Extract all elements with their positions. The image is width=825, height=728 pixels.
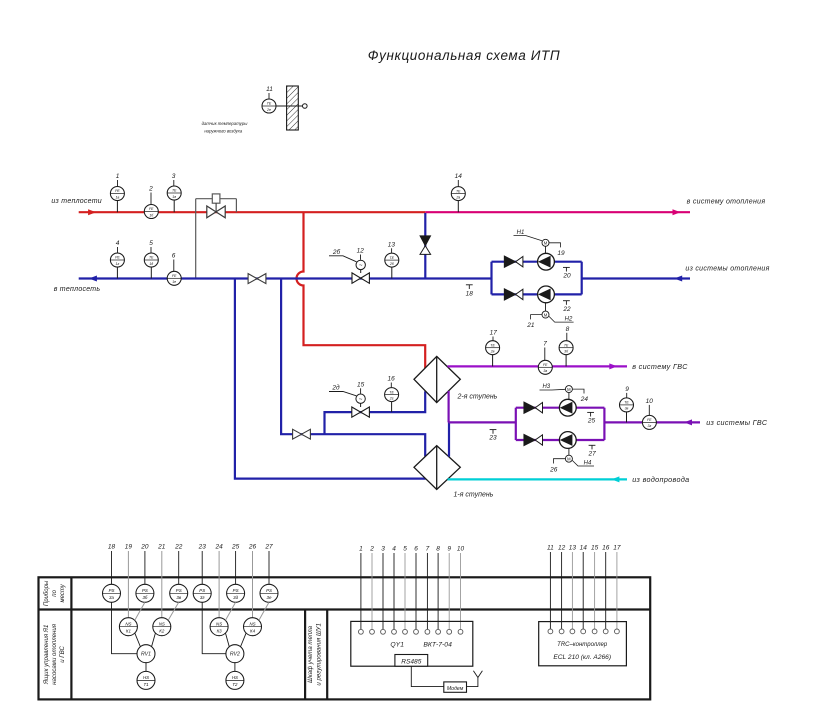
svg-text:К3: К3 [217,628,223,633]
svg-text:9: 9 [447,546,451,553]
instrument 4 label [116,240,120,253]
svg-text:К2: К2 [159,628,165,633]
wire RV1 to HS [145,663,147,672]
valve actuator box [212,194,220,203]
svg-text:10: 10 [457,546,465,553]
flow arrow left GVS [684,419,692,425]
svg-text:11: 11 [266,86,273,93]
svg-text:NS: NS [125,621,131,626]
text из теплосети [51,198,102,205]
svg-text:Н4: Н4 [584,461,592,467]
terminal number 9 [447,546,451,553]
pipe: return to heat network (blue) [79,277,492,279]
GVS pump left riser [515,408,517,440]
terminal number 25 [231,544,240,551]
header Ящик управления [43,623,66,685]
pump branch bottom [492,293,582,295]
svg-text:в систему отопления: в систему отопления [687,198,766,205]
wire 26 to NS [252,551,254,618]
wire 14 [582,552,584,629]
wire 13 [571,552,573,629]
wire 12 [561,552,563,629]
svg-text:17: 17 [613,545,621,552]
svg-text:ТЕ: ТЕ [490,343,495,347]
svg-text:HS: HS [143,675,149,680]
check valve GVS bottom [524,434,543,445]
text из водопровода [632,475,689,484]
label Н2 [549,316,574,322]
valve 15 [352,407,370,417]
table row divider [39,608,651,610]
svg-text:6: 6 [414,546,418,553]
instrument 14 stem [457,201,459,213]
circle HS T2 [226,671,244,689]
wire K1 to RV1 [135,633,141,646]
svg-text:2в: 2в [490,350,495,354]
svg-text:12: 12 [357,248,365,255]
svg-text:FE: FE [172,274,177,278]
motor H3 [565,386,572,393]
svg-text:из системы ГВС: из системы ГВС [706,418,768,427]
label 2б leader [329,248,357,262]
svg-text:1д: 1д [149,262,153,266]
tick 18 [466,285,474,298]
svg-text:7: 7 [426,546,430,553]
instrument 16 label [387,376,395,388]
svg-text:23: 23 [198,544,207,551]
instrument 9 label [625,386,629,398]
svg-text:3д: 3д [233,595,238,600]
shutoff valve GVS [293,429,311,439]
svg-text:23: 23 [488,435,497,442]
svg-text:Функциональная схема ИТП: Функциональная схема ИТП [368,48,560,63]
wire 2 [371,553,373,630]
wire 18 to RV1 [112,602,138,653]
svg-text:5: 5 [403,546,407,553]
svg-text:FE: FE [149,207,154,211]
svg-text:7: 7 [543,341,547,348]
svg-text:5: 5 [149,240,153,247]
wire 25 to PS [235,551,237,584]
GVS pump branch top [516,407,605,409]
blue riser 2 [281,280,425,457]
instrument 4 stem [116,267,118,279]
terminal 3 [381,629,386,634]
wire 27 to PS [268,551,270,584]
pump circuit right riser [581,262,583,295]
pipe: supply from heat network (red) [79,211,426,213]
tick 25 [587,412,596,424]
pipe: to heating system (magenta) [425,211,690,213]
svg-text:3: 3 [381,546,385,553]
text из системы ГВС [706,418,768,427]
svg-text:в систему ГВС: в систему ГВС [632,362,688,371]
svg-text:ТЕ: ТЕ [389,390,394,394]
terminal number 20 [140,544,149,551]
instrument 13 label [388,241,396,253]
check valve bottom [504,289,523,300]
instrument 13 stem [391,267,393,278]
wire to 24 [572,389,588,403]
svg-text:M: M [544,241,548,246]
svg-text:21: 21 [526,322,535,329]
svg-text:ТЕ: ТЕ [267,102,272,106]
svg-text:27: 27 [264,544,273,551]
blue riser 1 (cold water down) [235,280,426,479]
svg-text:FE: FE [647,418,652,422]
svg-text:NS: NS [249,621,255,626]
svg-text:Н2: Н2 [565,317,573,323]
circle NS К3 [210,618,228,636]
svg-text:20: 20 [562,273,571,280]
instrument 1 stem [116,201,118,213]
instrument 3 stem [173,200,175,212]
svg-text:2д: 2д [331,384,340,392]
svg-text:3: 3 [172,173,176,180]
instrument 13 [385,253,399,267]
svg-text:10: 10 [646,398,654,405]
svg-text:Приборы: Приборы [44,580,50,606]
pipe: to GVS system [448,365,628,367]
svg-text:4: 4 [116,240,120,247]
svg-text:2б: 2б [332,248,341,256]
svg-text:25: 25 [587,418,596,425]
sensor line [276,105,303,107]
circle PS 3в [170,584,188,602]
svg-text:24: 24 [214,544,223,551]
svg-text:3в: 3в [625,407,629,411]
svg-text:1: 1 [359,546,363,553]
circle RV1 [137,645,155,663]
terminal number 15 [591,545,599,552]
wire 20 to PS [144,551,146,584]
svg-text:RV1: RV1 [141,652,151,658]
svg-text:3г: 3г [648,424,652,428]
impulse line left [195,199,197,279]
shutoff valve on return [248,274,266,284]
svg-text:Шкаф учета тепла: Шкаф учета тепла [307,625,314,683]
motor H4 [565,455,572,462]
check valve top [504,256,523,267]
valve actuator stem [215,203,217,212]
wire 5 [404,553,406,630]
svg-text:насосами отопления: насосами отопления [51,623,58,685]
pipe: from GVS system [604,421,700,423]
circle PS 3а [103,584,121,602]
svg-text:19: 19 [125,544,133,551]
flow arrow right magenta [673,209,681,215]
svg-text:ТЕ: ТЕ [149,256,154,260]
wire K2 to RV1 [152,633,156,646]
svg-text:22: 22 [562,306,571,313]
svg-text:8: 8 [436,546,440,553]
instrument 9 [620,398,634,412]
instrument 8 label [566,326,570,341]
svg-text:TRC–контроллер: TRC–контроллер [557,642,608,648]
instrument 6 [167,271,181,285]
wire 16 [605,552,607,629]
pump branch top [492,261,582,263]
valve 12 label [357,248,365,260]
flow arrow left blue [89,276,97,282]
label Н4 [572,461,594,467]
svg-text:Т1: Т1 [143,682,149,687]
terminal 16 [603,629,608,634]
svg-text:ECL 210 (кл. А266): ECL 210 (кл. А266) [553,654,611,661]
circle NS К2 [153,618,171,636]
circle PS 3е [260,584,278,602]
svg-text:1е: 1е [172,280,176,284]
svg-text:К1: К1 [126,628,132,633]
svg-text:РЕ: РЕ [115,189,120,193]
svg-text:Н1: Н1 [517,230,525,236]
check valve GVS top [524,402,543,413]
wire 3 [382,553,384,630]
svg-text:18: 18 [466,291,474,298]
svg-text:18: 18 [108,544,116,551]
terminal 8 [436,629,441,634]
terminal number 7 [426,546,430,553]
text TRC-контроллер [557,642,608,648]
svg-text:RV2: RV2 [230,652,240,658]
svg-text:PS: PS [109,588,115,593]
terminal 15 [592,629,597,634]
svg-text:ТЕ: ТЕ [390,256,395,260]
pipe junction to stage2 (purple) [448,391,450,423]
svg-text:27: 27 [587,451,596,458]
box ECL 210 [539,622,627,666]
terminal 9 [447,629,452,634]
svg-text:16: 16 [602,545,610,552]
svg-text:месту: месту [60,583,66,602]
wire 17 [616,552,618,629]
wall (hatched) [287,86,299,130]
svg-text:M: M [544,312,548,317]
instrument 2 label [148,186,153,205]
instrument 5 label [149,240,153,253]
instrument 10 [642,415,656,429]
instrument 16 [385,388,399,402]
wire K4 to RV2 [241,633,247,646]
svg-text:и регулирования ШУ1: и регулирования ШУ1 [316,623,323,685]
wire K3 to RV2 [226,633,230,646]
sensor TE11 label [266,86,273,99]
instrument 6 label [172,253,176,272]
instrument 5 [144,253,158,267]
pump circuit left riser [490,262,492,295]
svg-text:PS: PS [233,588,239,593]
svg-text:Ящик управления Я1: Ящик управления Я1 [43,625,50,686]
GVS pump right riser [603,408,605,440]
label Н3 [540,384,566,390]
table ШУ1 header cell [305,610,327,700]
circle PS 3г [193,584,211,602]
wire to 21 [526,315,542,329]
sensor TE11 [262,99,276,113]
wire 7 [426,553,428,630]
text 2-я ступень [457,393,498,400]
terminal 1 [359,629,364,634]
svg-text:2: 2 [369,546,374,553]
svg-text:3в: 3в [176,595,181,600]
sensor caption [202,121,249,134]
pipe stage2 inlet [325,391,426,434]
wire 10 [460,553,462,630]
svg-text:13: 13 [388,241,396,248]
wire PS to NS [168,602,179,620]
wire 8 [437,553,439,630]
svg-text:13: 13 [569,545,577,552]
box RS485 [395,655,428,667]
svg-text:по: по [52,589,58,596]
svg-text:15: 15 [591,545,599,552]
box Модем [444,682,467,692]
wire 9 [448,553,450,630]
pipe junction to pumps (purple) [449,421,516,423]
wire 1 [360,553,362,630]
terminal number 2 [369,546,374,553]
svg-text:ТЕ: ТЕ [456,189,461,193]
instrument 3 label [172,173,176,186]
instrument 1 [110,187,124,201]
wire 23 to RV2 [202,602,226,653]
svg-text:21: 21 [157,544,166,551]
impulse line top [196,198,237,200]
motor H3 stem [568,393,570,400]
wire 15 [594,552,596,629]
svg-text:14: 14 [455,173,463,180]
flow arrow right GVS [609,363,617,369]
check valve on riser [420,236,431,255]
svg-text:1в: 1в [172,195,176,199]
terminal number 14 [580,545,588,552]
svg-text:NS: NS [216,621,222,626]
wire 21 to NS [161,551,163,618]
terminal number 17 [613,545,621,552]
svg-text:9: 9 [625,386,629,393]
terminal number 11 [547,545,554,552]
wire 4 [393,553,395,630]
svg-text:17: 17 [490,330,498,337]
terminal number 23 [198,544,207,551]
pipe: from heating system (blue) [582,277,690,279]
terminal 14 [581,629,586,634]
terminal 17 [615,629,620,634]
valve 15 label [357,381,365,393]
motor H2 [542,311,549,318]
wire 6 [415,553,417,630]
svg-text:PS: PS [199,588,205,593]
svg-text:16: 16 [387,376,395,383]
control valve on supply [207,206,225,218]
sensor terminal [303,104,308,109]
terminal 2 [370,629,375,634]
flow arrow right [88,209,96,215]
circle NS К4 [244,618,262,636]
terminal 5 [403,629,408,634]
svg-text:и ГВС: и ГВС [59,645,66,662]
instrument 5 stem [150,267,152,279]
GVS pump branch bottom [516,439,605,441]
table left header divider [70,577,72,699]
text QY1 [390,642,404,649]
svg-text:4: 4 [392,546,396,553]
terminal number 4 [392,546,396,553]
svg-text:~: ~ [359,397,363,403]
circle PS 3б [136,584,154,602]
instrument 17 [486,341,500,355]
svg-text:2г: 2г [389,396,394,400]
svg-text:2е: 2е [266,108,271,112]
svg-text:наружного воздуха: наружного воздуха [204,129,243,134]
wire modem to antenna [467,678,478,687]
valve 12 actuator [356,260,365,273]
svg-text:в теплосеть: в теплосеть [54,286,101,293]
svg-text:M: M [567,387,571,392]
terminal number 6 [414,546,418,553]
svg-text:ТЕ: ТЕ [564,343,569,347]
svg-text:1: 1 [116,173,120,180]
terminal number 16 [602,545,610,552]
terminal number 1 [359,546,363,553]
pipe stage1 to junction (blue) [448,422,450,456]
svg-text:1а: 1а [115,195,119,199]
pump H4 [559,432,576,449]
instrument 17 stem [492,355,494,367]
svg-text:датчик температуры: датчик температуры [202,121,249,126]
text в систему отопления [687,198,766,205]
wire PS to NS [135,602,145,620]
svg-text:PS: PS [266,588,272,593]
svg-text:ТЕ: ТЕ [624,401,629,405]
svg-text:26: 26 [248,544,257,551]
terminal number 19 [125,544,133,551]
header Приборы по месту [44,580,66,606]
motor H2 stem [545,303,547,311]
pump H1 [538,253,555,270]
instrument 7 [538,360,552,374]
wire 22 to PS [178,551,180,584]
antenna [473,671,482,678]
svg-text:FE: FE [543,363,548,367]
svg-text:22: 22 [174,544,183,551]
instrument 8 stem [565,355,567,367]
flow arrow left cyan [611,476,619,482]
pump H3 [559,399,576,416]
instrument 2 [144,205,158,219]
circle RV2 [226,645,244,663]
svg-text:3а: 3а [543,369,547,373]
terminal 13 [570,629,575,634]
svg-text:Модем: Модем [447,686,464,692]
svg-text:8: 8 [566,326,570,333]
svg-text:12: 12 [558,545,566,552]
svg-text:1-я ступень: 1-я ступень [454,491,494,498]
label Н1 [514,230,543,241]
wire 18 to PS [111,551,113,584]
valve 15 actuator [356,394,365,407]
wire 24 to NS [218,551,220,618]
tick 23 [488,430,497,442]
svg-text:HS: HS [232,675,238,680]
circle PS 3д [227,584,245,602]
svg-text:из водопровода: из водопровода [632,475,689,484]
wire 19 to NS [127,551,129,618]
instrument 4 [110,253,124,267]
svg-text:К4: К4 [250,628,256,633]
terminal 10 [458,629,463,634]
terminal number 13 [569,545,577,552]
